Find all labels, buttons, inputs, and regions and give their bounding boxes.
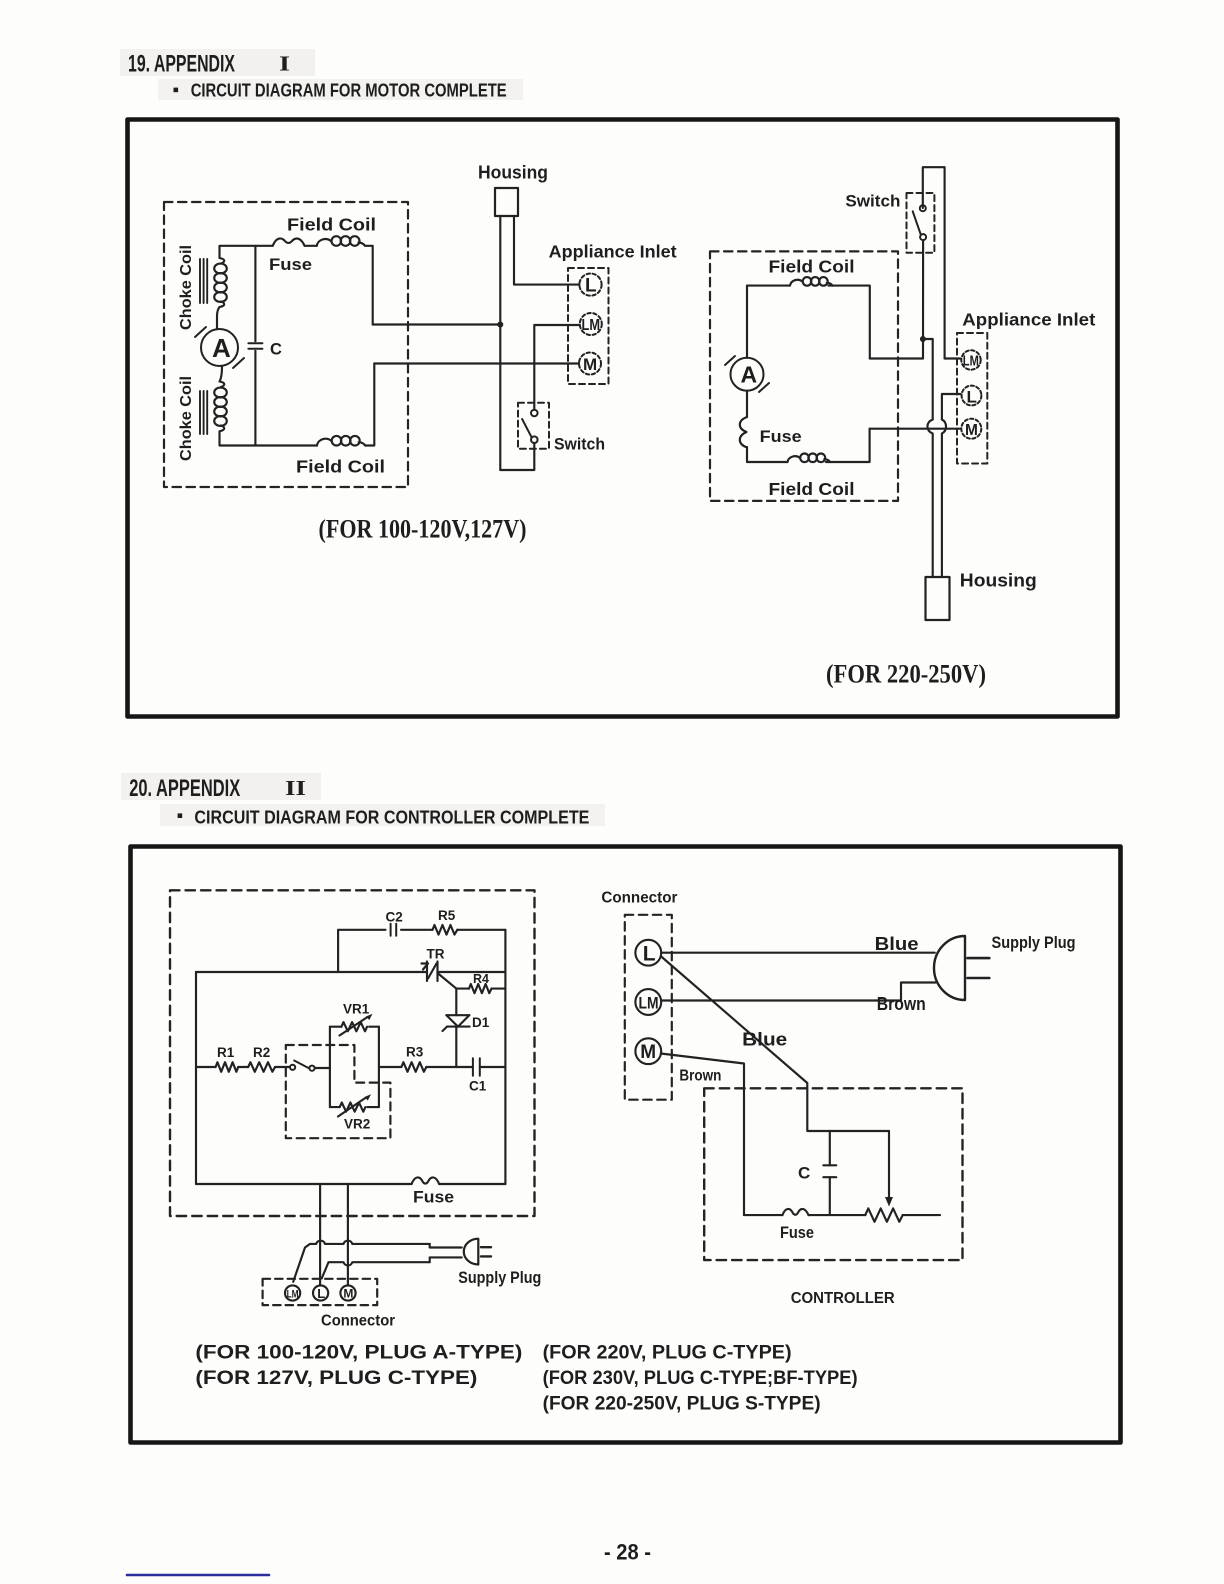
svg-text:L: L — [643, 943, 656, 966]
terminal M (left diagram) — [579, 353, 601, 375]
middle wire left — [196, 1066, 216, 1068]
svg-text:M: M — [640, 1042, 656, 1063]
subheading CIRCUIT DIAGRAM FOR MOTOR COMPLETE — [174, 81, 507, 101]
svg-text:L: L — [967, 388, 977, 407]
box frame appendix II — [131, 847, 1121, 1443]
svg-text:TR: TR — [427, 947, 445, 962]
wire gate to R4 — [456, 988, 469, 990]
terminal M (right diagram) — [961, 419, 981, 439]
svg-text:R4: R4 — [473, 972, 489, 986]
C2 R5 branch wire — [338, 930, 505, 972]
svg-text:L: L — [317, 1286, 325, 1301]
terminal LM (left diagram) — [580, 313, 602, 335]
svg-text:VR1: VR1 — [343, 1002, 370, 1017]
svg-text:(FOR 220-250V, PLUG S-TYPE): (FOR 220-250V, PLUG S-TYPE) — [543, 1394, 821, 1415]
connector dashed box (bottom) — [263, 1279, 378, 1305]
wire R4 to right vertical — [492, 988, 506, 990]
main loop top wire right part — [438, 971, 506, 973]
hop arc on right lead — [942, 420, 946, 578]
svg-text:Appliance Inlet: Appliance Inlet — [962, 310, 1095, 330]
appliance inlet dashed box (right) — [957, 333, 987, 464]
wire M diagonal (Brown) to controller — [661, 1054, 744, 1216]
wire switch down to junction — [870, 240, 923, 358]
wire LM to supply plug (Brown) — [661, 983, 935, 1001]
potentiometer resistor — [865, 1208, 902, 1221]
D1 branch wire — [455, 989, 457, 1067]
triac TR — [422, 962, 457, 989]
wire top loop — [220, 246, 273, 258]
field coil L2 (bottom) — [317, 436, 365, 446]
top wire right loop — [747, 286, 790, 358]
svg-text:Switch: Switch — [845, 192, 900, 211]
main loop bottom wire left — [196, 1183, 412, 1185]
junction node right — [920, 336, 926, 342]
wire R2 to switch — [275, 1066, 290, 1068]
wire L to supply plug (Blue) — [661, 952, 935, 954]
supply plug body (right) — [934, 936, 965, 1000]
wire housing to L terminal — [514, 216, 579, 285]
svg-text:D1: D1 — [472, 1015, 490, 1030]
capacitor C1 — [473, 1058, 480, 1076]
wire to M terminal — [374, 362, 579, 364]
terminal L (right diagram) — [962, 386, 982, 407]
svg-text:(FOR 230V, PLUG C-TYPE;BF-TYPE: (FOR 230V, PLUG C-TYPE;BF-TYPE) — [543, 1368, 858, 1389]
wire fuse to bottom — [747, 447, 788, 462]
dashed enclosure controller left — [170, 890, 535, 1216]
svg-text:- 28 -: - 28 - — [604, 1540, 651, 1565]
plug prongs (left) — [481, 1247, 491, 1256]
svg-text:LM: LM — [582, 317, 601, 334]
housing box (right) — [926, 577, 950, 620]
capacitor C2 — [391, 924, 397, 936]
drop wire to L — [319, 1184, 321, 1286]
svg-text:Field Coil: Field Coil — [769, 479, 855, 499]
svg-text:LM: LM — [639, 995, 659, 1013]
svg-text:Field Coil: Field Coil — [296, 457, 385, 477]
housing box (left) — [495, 188, 518, 216]
dashed enclosure controller right — [704, 1088, 962, 1260]
svg-text:20. APPENDIX: 20. APPENDIX — [129, 775, 240, 802]
M wire to terminal — [870, 428, 961, 430]
resistor R3 — [401, 1062, 426, 1072]
svg-text:(FOR 100-120V,127V): (FOR 100-120V,127V) — [319, 515, 527, 544]
field coil L3 (top right) — [790, 277, 833, 286]
wire to junction — [373, 323, 501, 325]
wire bottom loop — [220, 438, 318, 446]
svg-text:Fuse: Fuse — [760, 427, 802, 446]
svg-text:Brown: Brown — [679, 1068, 721, 1085]
wire housing left drop — [499, 216, 501, 470]
wire switch bottom return — [500, 443, 534, 470]
scan tint band heading II — [121, 773, 321, 800]
wire L diagonal (Blue) to controller — [661, 957, 889, 1132]
terminal L (bottom connector) — [313, 1285, 328, 1300]
svg-text:C2: C2 — [386, 910, 403, 925]
scan tint band subheading I — [158, 79, 523, 100]
svg-text:R1: R1 — [217, 1045, 235, 1060]
wire C1 to right vertical — [480, 1066, 506, 1068]
svg-text:Choke Coil: Choke Coil — [178, 245, 195, 330]
svg-text:R3: R3 — [406, 1045, 424, 1060]
fuse F (bump symbol) — [273, 238, 305, 245]
scan tint band heading I — [120, 49, 315, 76]
svg-text:M: M — [965, 422, 978, 439]
wire switch to VR block — [315, 1067, 330, 1069]
svg-text:M: M — [343, 1287, 353, 1301]
svg-text:19. APPENDIX: 19. APPENDIX — [128, 51, 235, 78]
capacitor C branch upper — [829, 1131, 831, 1165]
dashed enclosure motor right — [710, 251, 898, 501]
junction node — [497, 322, 503, 328]
pot wiper arrow — [885, 1131, 893, 1207]
wire LM stub — [945, 357, 961, 359]
svg-text:Supply Plug: Supply Plug — [992, 934, 1076, 952]
svg-text:(FOR 127V, PLUG C-TYPE): (FOR 127V, PLUG C-TYPE) — [195, 1367, 477, 1389]
svg-text:Field Coil: Field Coil — [287, 215, 376, 235]
capacitor C plates — [823, 1165, 836, 1177]
wire R1-R2 — [238, 1066, 248, 1068]
hop arc on left lead — [927, 420, 932, 578]
svg-text:Fuse: Fuse — [780, 1224, 814, 1242]
switch S3 contacts and lever — [290, 1061, 315, 1071]
svg-text:L: L — [585, 276, 597, 297]
box frame appendix I — [128, 120, 1118, 717]
field coil L4 (bottom right) — [788, 454, 831, 463]
heading 20. APPENDIX II — [129, 775, 306, 802]
VR1 branch wire — [330, 1026, 379, 1028]
capacitor C plates — [248, 343, 262, 349]
wire top right corner down — [365, 246, 373, 325]
wire R3 to C1 — [426, 1066, 473, 1068]
choke coil lower — [214, 366, 227, 438]
svg-text:Appliance Inlet: Appliance Inlet — [549, 242, 677, 262]
ammeter A right — [725, 356, 769, 392]
svg-text:R2: R2 — [253, 1045, 270, 1060]
svg-text:Fuse: Fuse — [413, 1189, 454, 1207]
ammeter A — [195, 327, 244, 368]
svg-text:M: M — [583, 355, 597, 374]
VR2 branch wire — [330, 1106, 379, 1108]
switch S1 dashed box — [518, 403, 549, 449]
resistor R2 — [248, 1062, 275, 1072]
main loop right vertical — [504, 930, 506, 1184]
fuse F3 (bump) — [412, 1177, 440, 1184]
svg-text:Connector: Connector — [601, 889, 677, 906]
svg-text:C: C — [270, 341, 282, 359]
switch S1 contacts and lever — [522, 410, 538, 443]
scan tint band subheading II — [160, 804, 605, 826]
main loop bottom wire right — [439, 1183, 505, 1185]
bottom wire controller right — [744, 1214, 782, 1216]
drop wire to M — [347, 1184, 349, 1286]
field coil L1 (top) — [317, 236, 365, 246]
svg-text:Housing: Housing — [478, 163, 548, 183]
svg-text:CIRCUIT DIAGRAM FOR CONTROLLER: CIRCUIT DIAGRAM FOR CONTROLLER COMPLETE — [194, 808, 589, 828]
fuse F2 (vertical symbol) — [740, 417, 747, 448]
svg-text:CONTROLLER: CONTROLLER — [791, 1290, 895, 1307]
appliance inlet dashed box (left) — [568, 268, 609, 384]
svg-text:Switch: Switch — [554, 436, 605, 454]
svg-text:VR2: VR2 — [344, 1117, 370, 1132]
terminal L (right connector) — [635, 940, 661, 966]
capacitor C branch wire lower — [254, 351, 256, 446]
main loop top wire — [196, 971, 427, 973]
svg-text:LM: LM — [963, 354, 979, 370]
resistor R4 — [469, 984, 492, 993]
blue footer line — [127, 1574, 269, 1577]
wire bottom right corner up — [365, 364, 374, 446]
variable resistor VR1 — [340, 1014, 373, 1036]
capacitor C branch lower — [829, 1177, 831, 1215]
main loop left vertical — [195, 972, 197, 1184]
svg-text:A: A — [741, 362, 758, 388]
dashed enclosure motor left — [164, 202, 408, 487]
supply plug body (left) — [464, 1239, 479, 1265]
svg-text:Connector: Connector — [321, 1313, 395, 1330]
svg-text:LM: LM — [287, 1288, 299, 1300]
terminal LM (bottom connector) — [285, 1285, 300, 1300]
resistor R1 — [216, 1062, 239, 1072]
svg-text:Choke Coil: Choke Coil — [178, 376, 195, 461]
svg-text:C: C — [798, 1164, 810, 1183]
choke core bars upper — [200, 259, 207, 303]
svg-text:Blue: Blue — [742, 1029, 787, 1050]
top cap wire — [923, 167, 945, 358]
variable resistor VR2 — [338, 1094, 371, 1116]
wire pot right — [903, 1214, 940, 1216]
wire ammeter to fuse — [746, 391, 748, 417]
svg-text:A: A — [212, 333, 231, 363]
wire LM to switch — [534, 325, 580, 410]
terminal LM (right diagram) — [961, 350, 980, 369]
wire L terminal drop — [942, 394, 961, 420]
terminal M (bottom connector) — [340, 1285, 355, 1300]
terminal M (right connector) — [635, 1038, 661, 1064]
supply cord (left plug) — [293, 1241, 462, 1282]
choke coil upper — [214, 258, 227, 329]
svg-text:CIRCUIT DIAGRAM FOR MOTOR COMP: CIRCUIT DIAGRAM FOR MOTOR COMPLETE — [191, 81, 507, 101]
fuse F4 (bump) — [782, 1209, 808, 1215]
switch S2 contacts and lever — [913, 205, 926, 240]
wire bottom right corner up to M wire — [826, 429, 870, 462]
svg-text:Supply Plug: Supply Plug — [458, 1269, 541, 1287]
dashed switch enclosure (L-shape) — [286, 1045, 391, 1138]
svg-text:II: II — [285, 776, 306, 800]
svg-text:C1: C1 — [469, 1079, 487, 1094]
switch S2 dashed box — [907, 193, 935, 253]
svg-text:Blue: Blue — [875, 934, 919, 954]
svg-text:(FOR 220-250V): (FOR 220-250V) — [826, 659, 986, 689]
wire jog to housing (left lead) — [923, 339, 933, 420]
wire top right to corner — [828, 286, 869, 359]
svg-text:Field Coil: Field Coil — [769, 257, 855, 277]
capacitor C branch wire upper — [254, 246, 256, 341]
VR block right vertical — [378, 1027, 380, 1107]
plug prongs (right) — [968, 958, 990, 978]
resistor R5 — [433, 925, 458, 935]
svg-text:Housing: Housing — [960, 571, 1037, 591]
svg-text:(FOR 220V, PLUG C-TYPE): (FOR 220V, PLUG C-TYPE) — [543, 1343, 792, 1364]
svg-text:Fuse: Fuse — [269, 255, 312, 274]
terminal L (left diagram) — [579, 274, 601, 297]
terminal LM (right connector) — [635, 989, 661, 1015]
svg-text:I: I — [279, 52, 290, 76]
choke core bars lower — [200, 391, 207, 434]
wire to field coil — [305, 245, 317, 247]
zener diode D1 — [443, 1015, 470, 1031]
svg-text:Brown: Brown — [877, 994, 926, 1014]
svg-text:R5: R5 — [438, 908, 456, 923]
svg-text:(FOR 100-120V, PLUG A-TYPE): (FOR 100-120V, PLUG A-TYPE) — [195, 1342, 522, 1364]
VR block left vertical — [329, 1027, 331, 1107]
subheading CIRCUIT DIAGRAM FOR CONTROLLER COMPLETE — [178, 808, 590, 828]
wire fuse to pot — [809, 1214, 866, 1216]
heading 19. APPENDIX I — [128, 51, 290, 78]
connector dashed box (right) — [625, 915, 672, 1100]
middle wire right — [379, 1066, 402, 1068]
